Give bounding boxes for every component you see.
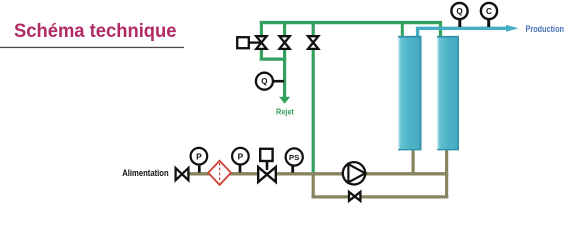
recirculation valve (bowtie on H2)	[349, 192, 360, 201]
wire: green U bottom	[260, 57, 286, 60]
wire: green column valve V2 / rejet drop	[283, 21, 286, 98]
wire: teal riser from vessel 1	[416, 28, 419, 37]
wire: olive vertical drop at x313	[312, 172, 315, 198]
svg-text:C: C	[486, 7, 492, 16]
wire: green column valve V1	[260, 21, 263, 61]
motorized valve (square + bowtie)	[258, 149, 276, 182]
production arrowhead	[506, 25, 519, 32]
wire: green manifold horizontal	[260, 21, 442, 24]
wire: teal permeate horizontal	[416, 27, 508, 30]
pump P (circle with triangle)	[343, 162, 365, 184]
wire: olive leg vessel 1	[412, 149, 415, 175]
svg-text:Q: Q	[456, 7, 463, 16]
svg-text:Q: Q	[261, 77, 267, 86]
wire: olive leg vessel 2	[445, 149, 448, 198]
valve V1 (hourglass with actuator box)	[237, 36, 266, 49]
wire: green feed elbow vessel 2 (under teal)	[439, 21, 442, 37]
valve V2 (hourglass)	[279, 36, 289, 49]
svg-text:Production: Production	[526, 24, 565, 34]
wire: olive bottom horizontal H2	[312, 195, 449, 198]
svg-text:Schéma technique: Schéma technique	[14, 21, 177, 42]
gauge PS	[286, 148, 303, 172]
svg-text:Rejet: Rejet	[276, 108, 294, 117]
wire: olive feed/concentrate horizontal H1	[189, 172, 448, 175]
gauge Q (rejet)	[256, 73, 284, 90]
svg-text:P: P	[238, 151, 244, 161]
svg-text:Alimentation: Alimentation	[122, 168, 169, 179]
svg-text:P: P	[196, 151, 202, 161]
gauge C (production)	[481, 3, 497, 27]
svg-text:PS: PS	[289, 155, 300, 162]
wire: green column valve V3 down to olive line	[312, 21, 315, 174]
filter (red dashed diamond)	[208, 161, 231, 185]
feed valve (bowtie)	[176, 168, 189, 180]
gauge P2	[232, 148, 249, 173]
title underline	[0, 47, 184, 48]
wire: green feed stub vessel 1	[401, 21, 404, 37]
gauge Q (production)	[451, 3, 467, 27]
valve V3 (hourglass)	[308, 36, 318, 49]
rejet arrowhead	[279, 97, 290, 104]
gauge P1	[191, 148, 208, 173]
membrane vessel 2	[437, 36, 459, 150]
